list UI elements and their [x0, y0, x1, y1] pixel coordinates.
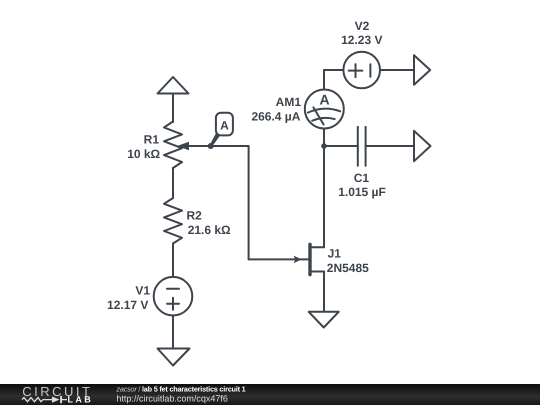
AM1 needle: [313, 107, 323, 124]
node A junction dot: [208, 143, 214, 149]
node A flag box: [216, 113, 233, 136]
svg-text:R1: R1: [144, 133, 160, 147]
ground under V1: [158, 349, 190, 366]
junction dot drain node: [321, 143, 327, 149]
AM1 meter arc 2: [312, 118, 335, 121]
svg-text:A: A: [220, 118, 229, 132]
power flag (up triangle): [158, 77, 189, 94]
wire top flag to R1: [172, 94, 174, 123]
svg-text:http://circuitlab.com/cqx47f6: http://circuitlab.com/cqx47f6: [116, 394, 228, 404]
CircuitLab logo diode bar: [60, 396, 62, 403]
svg-text:V1: V1: [135, 284, 150, 298]
ground under J1: [309, 312, 339, 328]
capacitor C1 plate 1: [357, 127, 359, 166]
gate arrowhead: [294, 256, 302, 264]
output flag top: [414, 55, 430, 85]
svg-text:zacsor / lab 5 fet characteris: zacsor / lab 5 fet characteristics circu…: [115, 384, 245, 393]
transistor J1 channel bar: [308, 244, 311, 274]
V2 plus sign: [349, 70, 363, 72]
svg-text:10 kΩ: 10 kΩ: [127, 147, 160, 161]
svg-text:C1: C1: [354, 171, 370, 185]
svg-text:1.015 µF: 1.015 µF: [338, 185, 386, 199]
svg-text:R2: R2: [187, 209, 203, 223]
wire AM1 to node: [323, 129, 325, 147]
footer bar: [0, 384, 540, 405]
svg-text:LAB: LAB: [68, 395, 94, 405]
J1 drain stub: [310, 246, 324, 248]
svg-text:V2: V2: [355, 19, 370, 33]
svg-text:J1: J1: [328, 246, 342, 260]
svg-text:12.23 V: 12.23 V: [341, 33, 382, 47]
wire R1 to R2: [172, 168, 174, 198]
V2 minus bar: [369, 64, 371, 77]
resistor R1 (potentiometer) zigzag: [164, 122, 182, 169]
wire C1 to output flag: [366, 145, 414, 147]
wire node A to bend: [211, 145, 249, 147]
wire source down to ground: [323, 272, 325, 312]
voltage source V1 circle: [154, 277, 193, 316]
AM1 meter arc 1: [308, 109, 340, 113]
svg-text:266.4 µA: 266.4 µA: [251, 109, 300, 123]
wire corner down to AM1: [323, 70, 325, 90]
wire V2 left to corner: [324, 69, 343, 71]
CircuitLab logo resistor zigzag: [22, 398, 52, 402]
output flag bottom: [414, 131, 431, 161]
CircuitLab logo lead: [62, 399, 67, 401]
wire bend down to gate level: [248, 146, 250, 259]
voltage source V2 circle: [343, 52, 380, 89]
svg-text:21.6 kΩ: 21.6 kΩ: [188, 223, 231, 237]
ammeter AM1 circle: [305, 90, 344, 129]
V1 plus sign: [167, 303, 179, 305]
svg-text:AM1: AM1: [276, 95, 302, 109]
J1 source stub: [310, 271, 324, 273]
wire gate horizontal: [249, 258, 309, 260]
CircuitLab logo diode triangle: [52, 397, 60, 403]
wire node down to JFET drain: [323, 146, 325, 247]
node A flag tail: [210, 133, 220, 147]
R1 wiper arrow: [177, 142, 189, 150]
wire V1 to ground: [172, 316, 174, 349]
svg-text:2N5485: 2N5485: [327, 261, 369, 275]
capacitor C1 plate 2: [365, 127, 367, 166]
svg-text:12.17 V: 12.17 V: [107, 298, 148, 312]
resistor R2 zigzag: [164, 198, 182, 244]
svg-text:A: A: [320, 91, 330, 107]
wire V2 right to output flag: [380, 69, 414, 71]
wire R2 to V1: [172, 244, 174, 278]
wire node right to C1: [324, 145, 358, 147]
V1 minus sign: [167, 288, 179, 290]
